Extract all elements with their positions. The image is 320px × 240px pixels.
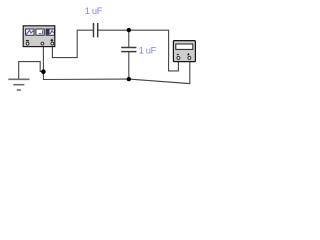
svg-text:1 uF: 1 uF <box>139 45 157 55</box>
voltmeter plus mark <box>187 53 190 55</box>
wire: battery middle pin down to bottom rail, rail to voltmeter + <box>43 44 189 84</box>
wire: C2 branch <box>128 30 130 79</box>
power supply plus label <box>51 39 54 42</box>
power supply icon 3 <box>46 29 54 35</box>
capacitor C1 1uF (horizontal) <box>94 23 98 37</box>
wire: ground to node A <box>19 62 43 80</box>
voltmeter U1 body <box>173 41 195 62</box>
power supply icon 1 <box>26 29 34 35</box>
power supply minus label <box>26 40 29 42</box>
svg-text:1 uF: 1 uF <box>85 6 103 16</box>
node C junction dot (bottom rail) <box>127 77 131 81</box>
voltmeter terminals <box>177 56 191 59</box>
node B junction dot (top rail) <box>127 28 131 32</box>
voltmeter display <box>176 44 193 49</box>
voltmeter minus mark <box>177 54 179 56</box>
ground <box>8 79 29 90</box>
wire: battery + pin up to top rail <box>52 30 93 57</box>
power supply B1 body <box>23 26 55 47</box>
capacitor C2 1uF (vertical) <box>121 48 136 52</box>
power supply icon 2 <box>36 29 44 35</box>
power supply terminals <box>26 42 53 45</box>
wire: top rail from C1 to voltmeter - <box>98 30 178 71</box>
node A junction dot <box>41 69 46 74</box>
